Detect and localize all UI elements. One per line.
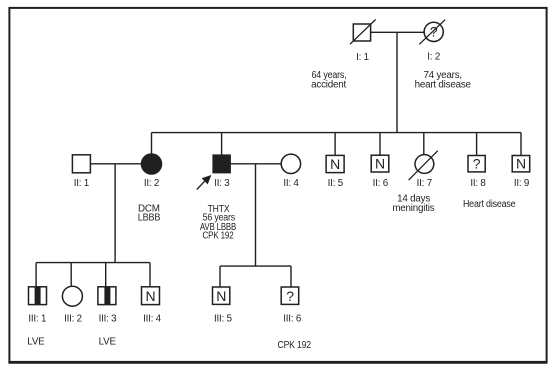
svg-text:III: 2: III: 2 — [64, 314, 82, 325]
svg-text:N: N — [330, 156, 340, 172]
svg-text:N: N — [146, 288, 156, 304]
svg-text:meningitis: meningitis — [392, 203, 434, 214]
wire: drop to III:1 — [35, 263, 37, 287]
svg-text:?: ? — [286, 288, 294, 304]
svg-text:CPK 192: CPK 192 — [203, 231, 234, 242]
individual II:5 normal male square N — [326, 155, 344, 172]
svg-text:II: 9: II: 9 — [514, 178, 529, 189]
wire: drop to III:4 — [149, 263, 151, 287]
svg-text:II: 3: II: 3 — [214, 178, 230, 189]
svg-text:N: N — [375, 156, 385, 172]
wire: drop to II:8 — [476, 133, 478, 156]
wire: drop to II:5 — [334, 133, 336, 156]
slash I:1 — [350, 20, 376, 45]
svg-text:II: 4: II: 4 — [283, 178, 299, 189]
wire: descent I couple to gen II sibship — [396, 32, 398, 132]
individual II:9 normal male square N — [512, 156, 530, 172]
individual II:4 female circle — [281, 154, 300, 173]
svg-text:II: 2: II: 2 — [144, 178, 159, 189]
svg-text:II: 1: II: 1 — [74, 178, 89, 189]
individual II:3 affected male filled square (proband) — [213, 155, 230, 173]
svg-text:III: 4: III: 4 — [143, 314, 162, 325]
svg-text:II: 5: II: 5 — [328, 178, 344, 189]
wire: drop to II:3 — [221, 133, 223, 155]
proband arrow — [197, 175, 211, 189]
individual II:8 male square query — [468, 156, 485, 172]
svg-text:III: 5: III: 5 — [214, 314, 233, 325]
individual III:2 female circle — [62, 286, 82, 306]
individual II:1 male square — [72, 155, 90, 173]
individual II:6 normal male square N — [371, 155, 389, 172]
wire: drop to II:2 — [151, 133, 153, 155]
svg-text:III: 1: III: 1 — [28, 314, 46, 325]
slash I:2 — [419, 20, 445, 45]
individual II:7 deceased female circle — [415, 155, 434, 174]
svg-text:N: N — [216, 288, 226, 304]
individual III:5 normal male square N — [213, 287, 230, 304]
wire: descent II:3 couple to right gen III sibship — [255, 164, 257, 266]
wire: drop to III:6 — [290, 266, 292, 287]
svg-text:?: ? — [473, 156, 481, 172]
wire: drop to II:9 — [520, 133, 522, 156]
wire: drop to II:6 — [379, 133, 381, 156]
slash II:7 — [409, 151, 438, 180]
svg-text:II: 7: II: 7 — [417, 178, 432, 189]
svg-text:Heart disease: Heart disease — [463, 199, 516, 210]
wire: drop to III:5 — [219, 266, 221, 287]
svg-text:II: 8: II: 8 — [470, 178, 486, 189]
svg-text:CPK 192: CPK 192 — [278, 340, 311, 351]
svg-text:III: 6: III: 6 — [283, 314, 302, 325]
wire: left gen III sibship line — [36, 262, 150, 264]
wire: drop to III:3 — [105, 263, 107, 287]
svg-text:III: 3: III: 3 — [99, 314, 118, 325]
svg-text:II: 6: II: 6 — [373, 178, 389, 189]
wire: drop to III:2 — [70, 263, 72, 287]
svg-text:LVE: LVE — [99, 337, 117, 348]
svg-text:accident: accident — [311, 80, 346, 91]
wire: marriage line II:3 to II:4 — [230, 163, 281, 165]
individual III:3 carrier male square with bar — [98, 287, 116, 305]
individual III:4 normal male square N — [142, 287, 160, 305]
svg-text:?: ? — [430, 24, 438, 40]
wire: drop to II:7 — [423, 133, 425, 155]
wire: right gen III sibship line — [220, 265, 291, 267]
svg-text:N: N — [516, 156, 526, 172]
wire: marriage line I:1 to I:2 — [371, 31, 425, 33]
svg-text:I: 1: I: 1 — [356, 52, 369, 63]
individual I:1 deceased male square — [353, 24, 370, 41]
svg-text:heart disease: heart disease — [415, 80, 472, 91]
svg-text:I: 2: I: 2 — [427, 51, 440, 62]
wire: marriage line II:1 to II:2 — [90, 163, 141, 165]
wire: descent II:1 couple to left gen III sibship — [114, 164, 116, 263]
individual I:2 deceased female circle — [424, 22, 443, 41]
individual III:1 carrier male square with bar — [29, 287, 47, 305]
individual II:2 affected female filled circle — [142, 154, 162, 174]
individual III:6 male square query — [281, 287, 299, 304]
svg-text:LBBB: LBBB — [138, 212, 161, 223]
svg-text:LVE: LVE — [27, 337, 45, 348]
wire: gen II sibship line — [152, 132, 522, 134]
